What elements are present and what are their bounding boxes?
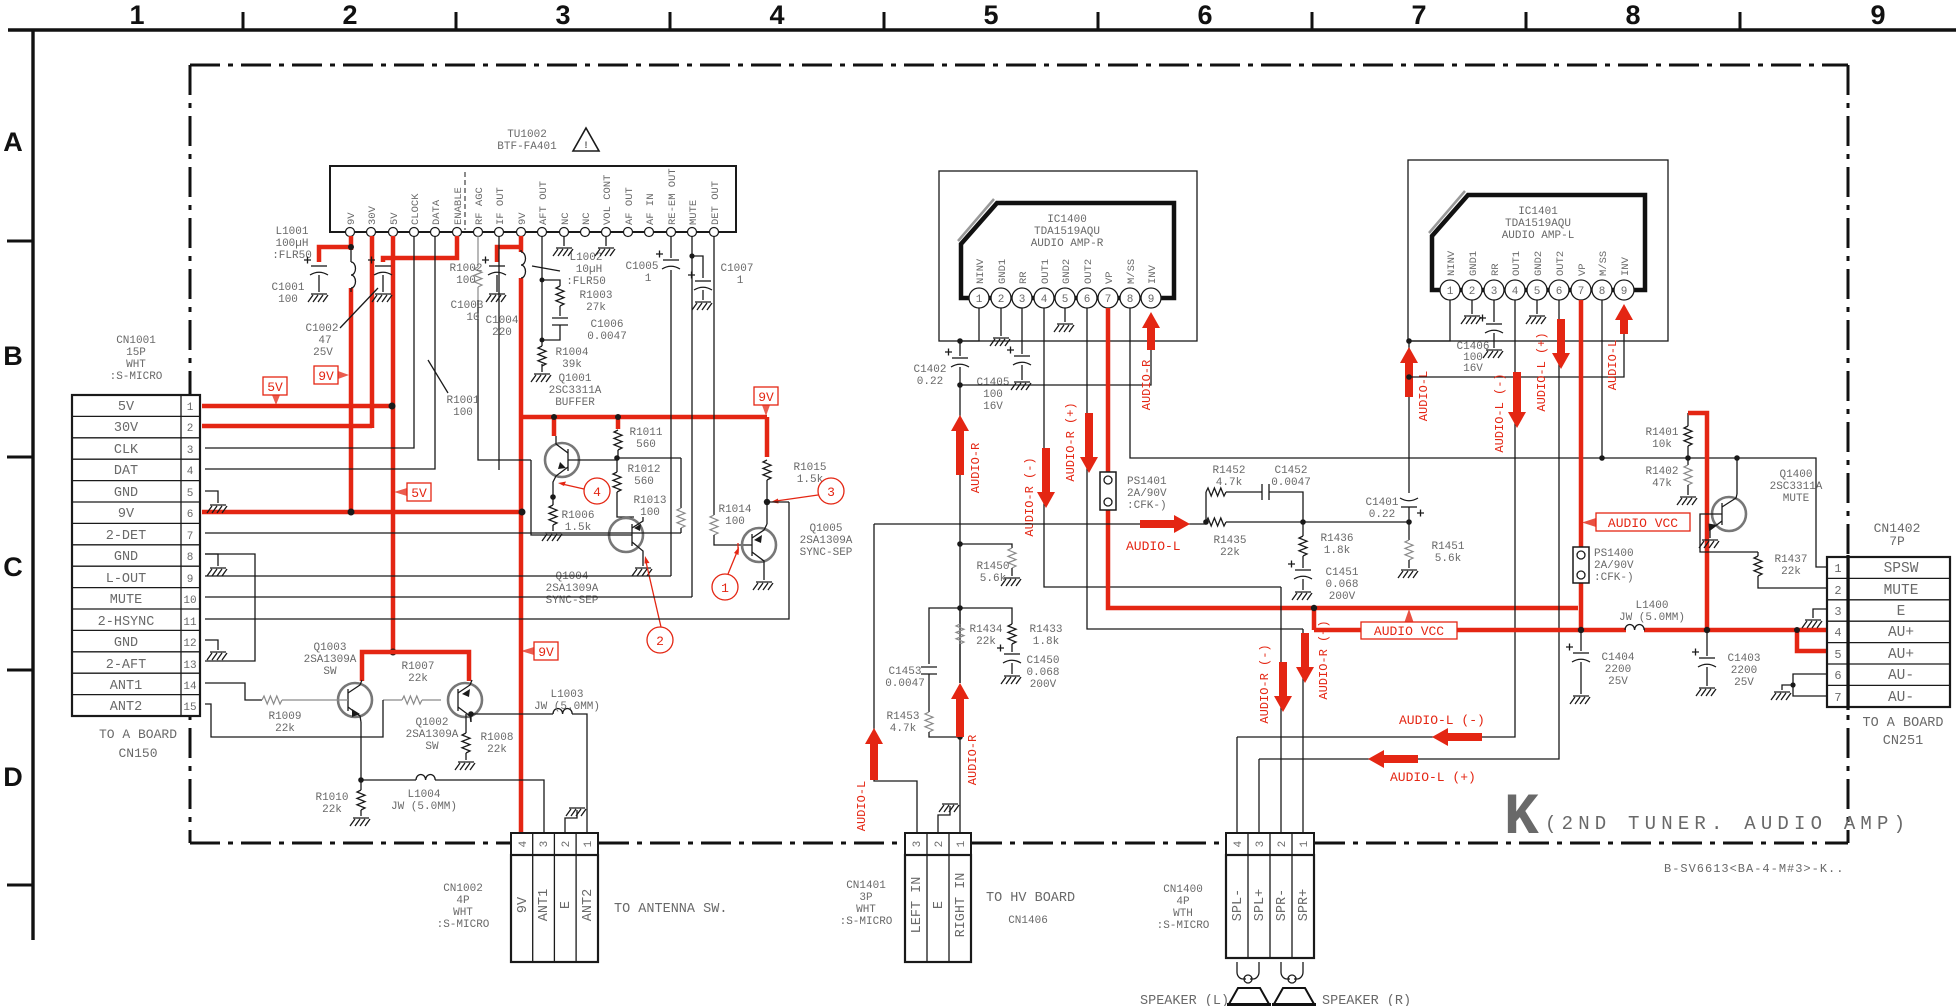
9V red wire row pin6 <box>202 510 522 515</box>
svg-text:39k: 39k <box>562 359 582 371</box>
svg-text:C1007: C1007 <box>720 263 753 275</box>
svg-text:4.7k: 4.7k <box>890 723 917 735</box>
inductor L1001 <box>351 248 356 292</box>
R1434 junction dot <box>957 605 963 611</box>
svg-text:8: 8 <box>1127 294 1134 306</box>
svg-text:C1404: C1404 <box>1601 652 1634 664</box>
CN1402 pin numbers <box>1834 562 1841 705</box>
svg-text:0.22: 0.22 <box>917 376 943 388</box>
wire IC1401 pin9 feedback <box>1409 330 1624 377</box>
svg-text:2SA1309A: 2SA1309A <box>304 654 357 666</box>
arrow AUDIO-L up pin1 <box>1400 347 1418 397</box>
5V red vertical from tuner pin3 <box>391 236 396 652</box>
svg-text:1.5k: 1.5k <box>565 522 592 534</box>
R1011 R1012 junction dot <box>614 455 620 461</box>
svg-text:6: 6 <box>1556 286 1563 298</box>
svg-text:R1435: R1435 <box>1213 535 1246 547</box>
arrow AUDIO-R into pin9 <box>1142 312 1160 350</box>
svg-text:L-OUT: L-OUT <box>106 572 147 587</box>
leader from circle 3 <box>776 495 818 501</box>
red wire R1401 top to rail <box>1688 413 1707 630</box>
svg-text:5: 5 <box>1062 294 1069 306</box>
svg-text:0.22: 0.22 <box>1369 509 1395 521</box>
svg-text:L1004: L1004 <box>407 789 440 801</box>
CN1002 pin numbers <box>518 840 595 847</box>
svg-text:WHT: WHT <box>453 907 473 919</box>
transistor Q1001 <box>545 436 579 497</box>
svg-text:R1436: R1436 <box>1320 533 1353 545</box>
svg-text:100: 100 <box>725 516 745 528</box>
svg-text:WTH: WTH <box>1173 908 1193 920</box>
top ruler line <box>8 28 1956 31</box>
connector CN1401 <box>905 833 971 962</box>
circled number 3 <box>818 478 844 504</box>
capacitor C1453 <box>921 608 960 712</box>
svg-text:3: 3 <box>1834 605 1841 619</box>
svg-text:200V: 200V <box>1030 679 1057 691</box>
svg-text:1: 1 <box>129 0 144 30</box>
svg-text:VP: VP <box>1104 271 1116 284</box>
svg-text:WHT: WHT <box>856 904 876 916</box>
svg-text:OUT1: OUT1 <box>1511 251 1523 276</box>
wire IC1401 pin8 M/SS down <box>1601 300 1603 458</box>
svg-text:2200: 2200 <box>1605 664 1631 676</box>
svg-text:SPR-: SPR- <box>1275 889 1290 921</box>
wire DET OUT down to R1014 <box>713 236 715 515</box>
svg-text:8: 8 <box>1599 286 1606 298</box>
svg-text:GND1: GND1 <box>997 259 1009 284</box>
svg-text:220: 220 <box>492 327 512 339</box>
svg-text:9V: 9V <box>538 645 554 660</box>
ruler tick 1|2 <box>242 12 245 30</box>
R1436 C1451 junction <box>1300 519 1306 525</box>
svg-text:L1400: L1400 <box>1635 600 1668 612</box>
capacitor C1005 <box>656 236 680 576</box>
CN1400 pin labels <box>1231 889 1312 921</box>
capacitor C1401 <box>1400 341 1424 522</box>
R1004 ground <box>531 374 551 382</box>
svg-text:5: 5 <box>1534 286 1541 298</box>
svg-text:Q1002: Q1002 <box>415 717 448 729</box>
wire AUDIO-R to CN1401 pin1 <box>959 737 961 833</box>
svg-text::CFK-): :CFK-) <box>1594 572 1634 584</box>
ruler tick 2|3 <box>455 12 458 30</box>
svg-text:7: 7 <box>1578 286 1585 298</box>
svg-text:C1401: C1401 <box>1365 497 1398 509</box>
svg-text:BTF-FA401: BTF-FA401 <box>497 141 557 153</box>
svg-text:AU-: AU- <box>1888 690 1914 706</box>
AFT network wires <box>541 236 543 372</box>
svg-text:NINV: NINV <box>975 258 987 284</box>
svg-text:2: 2 <box>342 0 357 30</box>
capacitor C1451 <box>1288 556 1312 600</box>
svg-text:TO A BOARD: TO A BOARD <box>99 727 177 742</box>
transistor Q1400 <box>1709 494 1747 538</box>
resistor R1451 <box>1398 522 1418 578</box>
svg-text:AUDIO-L: AUDIO-L <box>1417 371 1431 421</box>
svg-text:22k: 22k <box>976 636 996 648</box>
wire CN1400 pin1 vertical <box>1302 629 1304 833</box>
svg-text:100: 100 <box>456 275 476 287</box>
svg-text:6: 6 <box>187 509 194 521</box>
wire DATA down <box>205 236 435 469</box>
IC1400 pin names <box>975 258 1159 284</box>
svg-text:27k: 27k <box>586 302 606 314</box>
svg-text:TO A BOARD: TO A BOARD <box>1862 716 1943 731</box>
svg-text:R1401: R1401 <box>1645 427 1678 439</box>
svg-text:200V: 200V <box>1329 591 1356 603</box>
svg-text:RE-EM OUT: RE-EM OUT <box>667 168 679 225</box>
svg-text:4P: 4P <box>1176 896 1190 908</box>
ruler tick 5|6 <box>1097 12 1100 30</box>
svg-text:22k: 22k <box>1781 566 1801 578</box>
svg-text:GND: GND <box>114 550 138 565</box>
svg-text:7: 7 <box>187 531 194 543</box>
row tick D end <box>7 884 33 887</box>
svg-text:PS1401: PS1401 <box>1127 476 1167 488</box>
connector CN1400 <box>1226 833 1314 958</box>
svg-text:AUDIO-R: AUDIO-R <box>969 443 983 493</box>
svg-text:9V: 9V <box>318 369 334 384</box>
resistor R1006 <box>542 497 562 541</box>
R1401 junction dot <box>1685 455 1691 461</box>
svg-text:9: 9 <box>187 574 194 586</box>
inductor L1004 <box>361 775 544 834</box>
svg-text:R1451: R1451 <box>1431 541 1464 553</box>
svg-text:1: 1 <box>583 840 595 847</box>
resistor R1004 <box>538 346 546 366</box>
svg-text:6: 6 <box>1084 294 1091 306</box>
svg-text:AFT OUT: AFT OUT <box>538 181 550 225</box>
CN1402 E pin ground bracket <box>1802 609 1827 628</box>
svg-text:R1009: R1009 <box>268 711 301 723</box>
svg-text:OUT1: OUT1 <box>1040 259 1052 284</box>
svg-text:0.0047: 0.0047 <box>885 678 925 690</box>
svg-text:WHT: WHT <box>126 359 146 371</box>
resistor R1453 <box>925 712 960 737</box>
30V red wire row pin2 <box>202 424 372 429</box>
svg-text:TDA1519AQU: TDA1519AQU <box>1505 218 1571 230</box>
arrow AUDIO-R(+) down low <box>1296 633 1314 683</box>
block K dash-dot border bottom <box>190 842 510 845</box>
svg-text:CLOCK: CLOCK <box>410 193 422 225</box>
svg-text:0.0047: 0.0047 <box>1271 477 1311 489</box>
svg-text::CFK-): :CFK-) <box>1127 500 1167 512</box>
arrow AUDIO-L(-) left <box>1432 728 1482 746</box>
svg-text:5V: 5V <box>411 486 427 501</box>
AUDIO VCC boxed label mid <box>1361 609 1457 639</box>
svg-text:MUTE: MUTE <box>688 200 700 225</box>
svg-text:13: 13 <box>183 660 196 672</box>
resistor R1401 <box>1684 413 1692 458</box>
svg-text:JW (5.0MM): JW (5.0MM) <box>534 701 600 713</box>
svg-text:9: 9 <box>1621 286 1628 298</box>
svg-text:1: 1 <box>187 402 194 414</box>
CN1401 E pin ground bracket <box>938 804 959 833</box>
Q1400 collector wire <box>1736 458 1738 494</box>
svg-text:C: C <box>3 552 23 582</box>
svg-text:IC1400: IC1400 <box>1047 214 1087 226</box>
resistor R1015 <box>763 460 771 502</box>
svg-text:8: 8 <box>187 552 194 564</box>
resistor R1433 <box>960 608 1016 644</box>
resistor R1452 <box>1206 488 1252 522</box>
svg-text:2SC3311A: 2SC3311A <box>549 385 602 397</box>
svg-text:RF AGC: RF AGC <box>474 187 486 225</box>
circled number 2 <box>647 627 673 653</box>
svg-text:R1437: R1437 <box>1774 554 1807 566</box>
IC1400 pin2 ground <box>990 308 1010 346</box>
svg-text:1: 1 <box>956 840 968 847</box>
svg-text:3: 3 <box>1019 294 1026 306</box>
svg-text:15P: 15P <box>126 347 146 359</box>
circled number 4 <box>584 478 610 504</box>
svg-text::S-MICRO: :S-MICRO <box>1157 920 1210 932</box>
svg-text:AU+: AU+ <box>1888 647 1914 663</box>
VOL CONT pin ground <box>595 236 615 256</box>
svg-text:Q1005: Q1005 <box>809 523 842 535</box>
svg-text:RR: RR <box>1018 271 1030 284</box>
svg-text::FLR50: :FLR50 <box>566 276 606 288</box>
IC1401 body outline <box>1432 195 1645 290</box>
svg-text:3: 3 <box>1255 841 1267 848</box>
arrow AUDIO-R(+) down <box>1080 413 1098 473</box>
9V boxed label right <box>754 387 778 416</box>
resistor R1450 <box>960 544 1021 586</box>
svg-text:R1015: R1015 <box>793 462 826 474</box>
arrow AUDIO-L into pin9 <box>1615 304 1633 334</box>
arrow AUDIO-R(-) down <box>1037 448 1055 508</box>
arrow AUDIO-R up low <box>951 683 969 737</box>
arrow AUDIO-L(+) left <box>1368 750 1418 768</box>
svg-text:AU+: AU+ <box>1888 625 1914 641</box>
svg-text:8: 8 <box>1625 0 1640 30</box>
svg-text:AUDIO-L: AUDIO-L <box>855 781 869 831</box>
CN1402 pin labels <box>1884 561 1919 706</box>
svg-text:9V: 9V <box>517 212 529 225</box>
svg-text:DAT: DAT <box>114 464 138 479</box>
capacitor C1402 <box>945 349 969 684</box>
svg-text:4: 4 <box>1512 286 1519 298</box>
fuse PS1401 <box>1100 472 1116 510</box>
svg-text:CN1400: CN1400 <box>1163 884 1203 896</box>
svg-text:IF OUT: IF OUT <box>495 187 507 225</box>
svg-text:R1433: R1433 <box>1029 624 1062 636</box>
svg-text:CN251: CN251 <box>1883 734 1924 749</box>
wire pin8 to pin13 <box>205 554 255 661</box>
CN1002 pin labels <box>516 889 596 921</box>
svg-text:1: 1 <box>1834 562 1841 576</box>
svg-text:7: 7 <box>1105 294 1112 306</box>
svg-text:DATA: DATA <box>431 199 443 225</box>
svg-text:!: ! <box>583 141 589 152</box>
capacitor C1001 <box>304 257 328 303</box>
svg-text:AUDIO-R (+): AUDIO-R (+) <box>1317 620 1331 699</box>
svg-text:A: A <box>3 127 23 157</box>
svg-text:5V: 5V <box>118 400 135 415</box>
capacitor C1405 <box>1007 347 1031 391</box>
svg-text:GND1: GND1 <box>1468 251 1480 276</box>
connector CN1001 box <box>72 395 200 716</box>
svg-text:NC: NC <box>560 212 572 225</box>
svg-text:RIGHT IN: RIGHT IN <box>954 873 969 938</box>
IC1400 body outline <box>961 203 1174 298</box>
IC1400 pin circles <box>969 288 1161 308</box>
svg-text:10k: 10k <box>1652 439 1672 451</box>
svg-text::S-MICRO: :S-MICRO <box>840 916 893 928</box>
svg-text:9V: 9V <box>516 896 531 913</box>
svg-text:AUDIO-R (-): AUDIO-R (-) <box>1258 644 1272 723</box>
svg-text:IC1401: IC1401 <box>1518 206 1558 218</box>
svg-text:CN1001: CN1001 <box>116 335 156 347</box>
CN1001 pin name texts <box>98 400 155 715</box>
svg-text:R1006: R1006 <box>561 510 594 522</box>
svg-text:9V: 9V <box>758 390 774 405</box>
svg-text:GND2: GND2 <box>1533 251 1545 276</box>
CN1402 AU- bracket <box>1771 674 1827 700</box>
wire MUTE row <box>205 596 692 598</box>
svg-text:4: 4 <box>1041 294 1048 306</box>
svg-text:R1434: R1434 <box>969 624 1002 636</box>
leader from circle 4 <box>562 484 584 489</box>
CN1002 E pin ground bracket <box>565 808 586 833</box>
resistor R1011 <box>614 430 622 458</box>
tuner pin circles <box>346 228 719 237</box>
svg-text:7: 7 <box>1834 691 1841 705</box>
svg-text:AUDIO-L (+): AUDIO-L (+) <box>1535 332 1549 411</box>
svg-text:2: 2 <box>998 294 1005 306</box>
svg-text:GND: GND <box>114 636 138 651</box>
9V boxed label top <box>314 366 349 384</box>
svg-text:JW (5.0MM): JW (5.0MM) <box>391 801 457 813</box>
resistor R1436 <box>1299 522 1307 556</box>
svg-text:6: 6 <box>1834 669 1841 683</box>
svg-text:C1005: C1005 <box>625 261 658 273</box>
row tick A|B <box>7 240 33 243</box>
svg-text:9: 9 <box>1148 294 1155 306</box>
resistor R1437 <box>1754 552 1827 588</box>
svg-text:SPR+: SPR+ <box>1297 889 1312 921</box>
svg-text:INV: INV <box>1147 264 1159 284</box>
speaker L plug loop <box>1237 962 1259 983</box>
GND pin5 stub <box>205 491 227 513</box>
30V red vertical to tuner pin2 <box>370 236 375 428</box>
svg-text:C1452: C1452 <box>1274 465 1307 477</box>
svg-text:2SA1309A: 2SA1309A <box>800 535 853 547</box>
svg-text:C1006: C1006 <box>590 319 623 331</box>
speaker R plug loop <box>1281 962 1303 983</box>
svg-text:SYNC-SEP: SYNC-SEP <box>800 547 853 559</box>
svg-text:AUDIO-L: AUDIO-L <box>1606 340 1620 390</box>
transistor Q1003 <box>338 680 372 722</box>
svg-text:R1010: R1010 <box>315 792 348 804</box>
svg-text:2A/90V: 2A/90V <box>1127 488 1167 500</box>
transistor Q1004 <box>609 517 643 560</box>
svg-text:1: 1 <box>721 581 729 596</box>
inductor L1002 <box>521 250 526 278</box>
svg-text:3: 3 <box>539 841 551 848</box>
svg-text:5: 5 <box>983 0 998 30</box>
wire network to C1401 <box>1303 521 1409 523</box>
svg-text:M/SS: M/SS <box>1598 251 1610 276</box>
svg-text:L1002: L1002 <box>569 252 602 264</box>
svg-text:C1403: C1403 <box>1727 653 1760 665</box>
capacitor C1452 <box>1252 484 1303 522</box>
svg-text:C1001: C1001 <box>271 282 304 294</box>
svg-text:R1011: R1011 <box>629 427 662 439</box>
svg-text:MUTE: MUTE <box>1884 583 1919 599</box>
svg-text:10: 10 <box>183 595 196 607</box>
red stub to Q1001 collector <box>552 417 557 436</box>
svg-text:0.068: 0.068 <box>1026 667 1059 679</box>
CN1401 pin numbers <box>912 840 968 847</box>
svg-text:DET OUT: DET OUT <box>710 181 722 225</box>
CN1001 pin number texts <box>183 402 197 714</box>
svg-text:14: 14 <box>183 681 197 693</box>
svg-text:E: E <box>932 901 947 909</box>
IC1401 outer box <box>1408 160 1668 341</box>
svg-text:C1451: C1451 <box>1325 567 1358 579</box>
svg-text:2200: 2200 <box>1731 665 1757 677</box>
svg-text::S-MICRO: :S-MICRO <box>110 371 163 383</box>
wire IC1401 pin3 to C1406 <box>1493 300 1495 322</box>
svg-text:9V: 9V <box>346 212 358 225</box>
svg-text:0.0047: 0.0047 <box>587 331 627 343</box>
dashed separator right of ENABLE <box>464 172 466 230</box>
svg-text:7: 7 <box>1411 0 1426 30</box>
capacitor C1002 <box>368 257 392 303</box>
svg-text:ANT1: ANT1 <box>537 889 552 921</box>
svg-text:5: 5 <box>1834 648 1841 662</box>
wire node3 to 2-HSYNC vertical <box>767 501 789 503</box>
speaker R symbol <box>1272 988 1316 1005</box>
5V red wire row pin1 <box>202 404 393 409</box>
svg-text:4.7k: 4.7k <box>1216 477 1243 489</box>
AUDIO VCC boxed label right <box>1582 513 1690 531</box>
svg-text:AUDIO-L (-): AUDIO-L (-) <box>1493 373 1507 452</box>
Q1004 base wire <box>531 460 632 535</box>
svg-text:9V: 9V <box>118 507 135 522</box>
svg-text:2SA1309A: 2SA1309A <box>406 729 459 741</box>
svg-text:R1002: R1002 <box>449 263 482 275</box>
svg-text:AUDIO-R (+): AUDIO-R (+) <box>1064 402 1078 481</box>
capacitor C1007 <box>688 256 712 310</box>
svg-text:AUDIO-L (+): AUDIO-L (+) <box>1390 770 1476 785</box>
svg-text:25V: 25V <box>313 347 333 359</box>
svg-text:5.6k: 5.6k <box>980 573 1007 585</box>
Q1001 base wire <box>568 458 681 460</box>
block K dash-dot border right <box>1847 65 1850 843</box>
red tick on Q1005 base <box>737 543 739 553</box>
svg-text:10: 10 <box>466 312 479 324</box>
svg-text:AF OUT: AF OUT <box>624 187 636 225</box>
svg-text:2: 2 <box>1834 584 1841 598</box>
svg-text:OUT2: OUT2 <box>1083 259 1095 284</box>
svg-text:560: 560 <box>634 476 654 488</box>
svg-text:100: 100 <box>278 294 298 306</box>
svg-text:ANT1: ANT1 <box>110 679 142 694</box>
red branch dot <box>1794 627 1800 633</box>
svg-text:LEFT IN: LEFT IN <box>910 877 925 934</box>
svg-text:R1007: R1007 <box>401 661 434 673</box>
wire CN1400 pin4 vertical <box>1236 737 1238 833</box>
arrow AUDIO-R up mid <box>951 415 969 475</box>
5V boxed label mid <box>394 483 431 501</box>
svg-text:4: 4 <box>593 485 601 500</box>
resistor R1434 <box>956 608 964 683</box>
svg-text:RR: RR <box>1490 263 1502 276</box>
resistor R1014 <box>710 515 752 545</box>
